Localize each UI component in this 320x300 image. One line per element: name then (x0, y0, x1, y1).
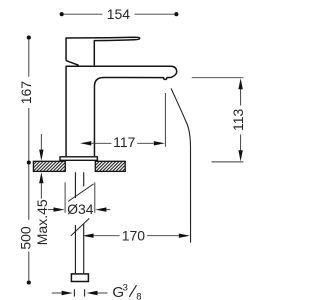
svg-text:167: 167 (18, 81, 34, 105)
svg-text:3: 3 (123, 282, 128, 293)
svg-text:Ø34: Ø34 (67, 201, 94, 217)
svg-text:113: 113 (230, 109, 246, 132)
svg-text:500: 500 (17, 226, 33, 250)
svg-text:8: 8 (136, 292, 141, 300)
svg-text:154: 154 (107, 6, 131, 22)
svg-text:Max.45: Max.45 (34, 199, 50, 245)
svg-text:170: 170 (122, 228, 146, 244)
svg-text:117: 117 (113, 134, 136, 150)
